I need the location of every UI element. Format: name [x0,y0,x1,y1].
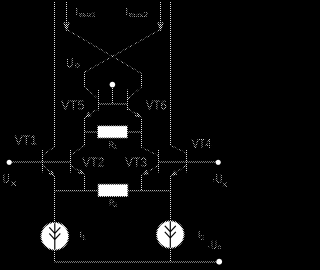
wire: R1 left lead [85,131,98,133]
wire: right collector rail of VT4 to top edge [170,2,172,145]
current source I2 disc [157,221,184,248]
svg-text:вых1: вых1 [79,10,96,19]
wire: R2 right lead [128,190,171,192]
svg-text:I: I [125,6,128,18]
wire: VT5 emitter / VT2 collector node [84,118,86,146]
svg-text:U: U [3,172,10,186]
svg-text:VT5: VT5 [61,97,85,112]
svg-text:VT3: VT3 [125,154,147,169]
wire: below current source I2 [170,248,172,262]
transistor VT3 emitter diagonal with arrow [142,165,159,175]
wire: right input node to bases of VT3 and VT4 [159,161,219,163]
svg-text:VT4: VT4 [192,136,212,151]
transistor VT2 emitter diagonal with arrow [71,165,85,174]
wire: R1 right lead [127,131,141,133]
output current arrow Iout1 wire [66,2,68,29]
transistor VT6 emitter diagonal with arrow [128,108,142,117]
current source I1 circle outline [41,222,69,250]
wire: below current source I1 [54,250,56,262]
svg-text:1: 1 [82,235,86,242]
output current arrow Iout2 wire [160,2,162,29]
wire: bottom negative supply rail [55,261,220,263]
current source I1 disc [41,223,68,250]
transistor VT5 base bar [98,90,100,111]
transistor VT3 base bar [158,150,160,173]
transistor VT4 emitter diagonal with arrow [171,165,187,176]
wire: cross link from Iout1 to VT6 collector [67,29,142,73]
wire: Uo terminal to base line [112,87,114,104]
terminal dot: right input [216,160,221,165]
transistor VT5 collector diagonal [85,87,99,100]
terminal dot: left input Ux [7,160,12,165]
transistor VT5 emitter diagonal with arrow [85,108,99,117]
wire: R2 left lead [55,190,99,192]
svg-text:о: о [75,60,80,71]
transistor VT1 emitter diagonal with arrow [43,165,55,176]
resistor R1 outline [98,126,128,138]
wire: VT1 emitter down to current source I1 [54,176,56,222]
resistor R2 outline [98,184,128,196]
current source I2 double arrow [165,226,176,232]
svg-text:вых2: вых2 [129,10,148,19]
current source I2 circle outline [157,221,185,249]
svg-text:VT6: VT6 [146,97,167,112]
current source I2 internal wire [169,222,171,248]
wire: VT4 emitter down to current source I2 [170,176,172,220]
transistor VT4 collector diagonal [171,145,187,153]
transistor VT1 base bar [42,150,44,173]
resistor R2 body fill [99,185,128,197]
svg-text:VT1: VT1 [15,133,38,148]
transistor VT2 base bar [70,150,72,173]
svg-text:U: U [66,54,73,70]
terminal dot: negative supply [216,259,222,265]
arrowhead Iout1 [64,22,69,29]
arrowhead Iout2 [158,22,163,29]
wire: common base line VT5-VT6 [99,103,128,105]
current source I1 internal wire [54,223,56,249]
transistor VT3 collector diagonal [142,147,159,156]
transistor VT2 collector diagonal [71,146,85,156]
svg-text:х: х [223,180,228,189]
terminal dot: Uo bias node [110,82,116,88]
svg-text:2: 2 [200,235,204,242]
resistor R1 body fill [98,126,127,137]
wire: left collector rail of VT1 to top edge [54,2,56,147]
wire: cross link from Iout2 to VT5 collector [85,29,161,72]
transistor VT1 collector diagonal [43,147,55,156]
svg-text:U: U [216,172,223,186]
svg-text:U: U [211,240,217,252]
wire: VT6 emitter / VT3 collector node [141,118,143,148]
wire: VT6 collector vertical [141,74,143,88]
transistor VT4 base bar [186,150,188,173]
wire: left input node to bases of VT1 and VT2 [9,161,70,163]
wire: VT2 emitter down to R2 left node [84,175,86,191]
transistor VT6 collector diagonal [128,87,142,99]
svg-text:VT2: VT2 [82,154,104,169]
wire: VT5 collector vertical [84,72,86,86]
svg-text:х: х [11,179,17,188]
wire: VT3 emitter down to R2 right node [141,175,143,191]
current source I1 double arrow [49,227,60,233]
svg-text:I: I [75,6,78,18]
svg-text:п: п [218,244,222,251]
transistor VT6 base bar [127,90,129,111]
